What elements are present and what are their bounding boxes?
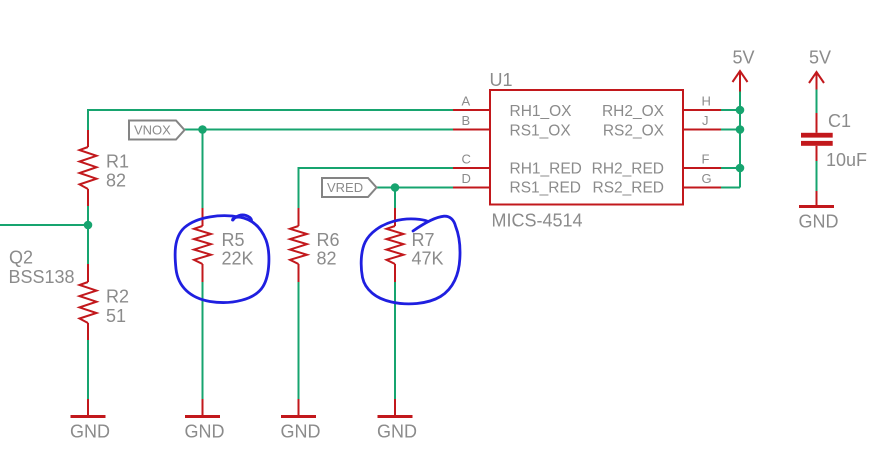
svg-text:GND: GND	[70, 422, 110, 442]
svg-text:82: 82	[106, 171, 126, 191]
svg-text:22K: 22K	[222, 249, 254, 269]
pin C stub	[453, 167, 491, 169]
pin B stub	[453, 129, 491, 131]
junction node H	[736, 106, 745, 115]
svg-text:RH2_OX: RH2_OX	[602, 103, 665, 120]
svg-text:U1: U1	[490, 70, 513, 90]
ground symbol under R2	[70, 399, 110, 442]
svg-text:R7: R7	[412, 230, 435, 250]
wire to left edge (Q2 drain)	[0, 224, 88, 226]
svg-text:RS1_OX: RS1_OX	[510, 123, 572, 140]
svg-text:5V: 5V	[809, 48, 831, 68]
net flag VRED	[322, 178, 377, 197]
U1 left pin names	[510, 103, 582, 197]
wire R2 to GND	[87, 340, 89, 399]
pin D stub	[453, 187, 491, 189]
ground symbol under R5	[185, 399, 225, 442]
svg-text:GND: GND	[799, 212, 839, 232]
wire pin F to 5V bus	[721, 167, 740, 169]
wire VNOX junction down to R5	[202, 130, 204, 209]
wire R7 to GND	[394, 282, 396, 399]
junction node R1/R2/Q2	[84, 221, 93, 230]
svg-text:82: 82	[317, 249, 337, 269]
resistor R7	[387, 208, 404, 282]
resistor R1 labels	[106, 152, 129, 191]
pin A stub	[453, 109, 491, 111]
junction node F	[736, 164, 745, 173]
wire 5V bus vertical	[739, 92, 741, 188]
junction node J	[736, 125, 745, 134]
wire R5 to GND	[202, 282, 204, 399]
junction node VRED/R7	[391, 183, 400, 192]
svg-text:A: A	[462, 94, 471, 109]
resistor R7 labels	[412, 230, 444, 269]
pin F stub	[683, 167, 721, 169]
svg-text:MICS-4514: MICS-4514	[492, 211, 583, 231]
U1 right pin names	[592, 103, 665, 197]
power 5V symbol over C1	[809, 72, 824, 90]
svg-text:R6: R6	[317, 230, 340, 250]
junction node VNOX/R5	[198, 125, 207, 134]
svg-text:H: H	[702, 94, 711, 109]
svg-text:GND: GND	[185, 422, 225, 442]
svg-text:R5: R5	[222, 230, 245, 250]
svg-text:VNOX: VNOX	[134, 123, 171, 138]
wire VRED junction down to R7	[394, 188, 396, 209]
ground symbol under C1	[799, 191, 839, 232]
transistor Q2 label	[9, 248, 75, 288]
op-amp U1 box (MICS-4514)	[490, 90, 683, 205]
wire net VNOX to pin B	[184, 129, 453, 131]
ground symbol under R7	[377, 399, 417, 442]
wire net C from R6 to pin C	[299, 168, 454, 208]
pin J stub	[683, 129, 721, 131]
svg-text:GND: GND	[377, 422, 417, 442]
svg-text:RH1_OX: RH1_OX	[510, 103, 573, 120]
svg-text:GND: GND	[281, 422, 321, 442]
svg-text:RS2_OX: RS2_OX	[603, 123, 665, 140]
svg-text:51: 51	[106, 306, 126, 326]
wire R6 to GND	[298, 282, 300, 399]
svg-text:R2: R2	[106, 287, 129, 307]
svg-text:RS2_RED: RS2_RED	[593, 180, 665, 197]
svg-text:J: J	[702, 113, 709, 128]
resistor R2	[80, 264, 97, 340]
pin H stub	[683, 109, 721, 111]
svg-text:D: D	[462, 171, 471, 186]
svg-text:10uF: 10uF	[826, 150, 867, 170]
svg-text:47K: 47K	[412, 249, 444, 269]
annotation blue circle around R5	[175, 215, 269, 303]
annotation blue circle around R7	[361, 216, 460, 304]
wire C1 bottom to GND	[816, 161, 818, 191]
resistor R2 labels	[106, 287, 129, 327]
resistor R5 labels	[222, 230, 254, 269]
svg-text:G: G	[702, 171, 712, 186]
wire between R1 and R2 through junction	[87, 206, 89, 264]
power 5V symbol over bus	[733, 71, 748, 92]
svg-text:R1: R1	[106, 152, 129, 172]
capacitor C1	[801, 133, 833, 146]
svg-text:RH2_RED: RH2_RED	[592, 161, 664, 178]
svg-text:C: C	[462, 152, 471, 167]
wire pin G to 5V bus	[721, 187, 740, 189]
wire net A vertical+horizontal	[88, 110, 453, 130]
svg-text:RS1_RED: RS1_RED	[510, 180, 582, 197]
wire net VRED to pin D	[376, 187, 453, 189]
svg-text:VRED: VRED	[327, 180, 363, 195]
svg-text:5V: 5V	[733, 48, 755, 68]
wire pin H to 5V bus	[721, 109, 740, 111]
resistor R5	[194, 208, 211, 282]
resistor R6 labels	[317, 230, 340, 269]
svg-text:C1: C1	[828, 111, 851, 131]
capacitor C1 labels	[826, 111, 867, 170]
wire pin J to 5V bus	[721, 129, 740, 131]
pin G stub	[683, 187, 721, 189]
svg-text:F: F	[702, 152, 710, 167]
net flag VNOX	[129, 121, 185, 140]
resistor R6	[290, 208, 307, 282]
svg-text:BSS138: BSS138	[9, 267, 75, 287]
wire 5V to C1 top	[816, 90, 818, 114]
ground symbol under R6	[281, 399, 321, 442]
svg-text:Q2: Q2	[9, 248, 33, 268]
resistor R1	[80, 130, 97, 206]
svg-text:RH1_RED: RH1_RED	[510, 161, 582, 178]
svg-text:B: B	[462, 113, 471, 128]
